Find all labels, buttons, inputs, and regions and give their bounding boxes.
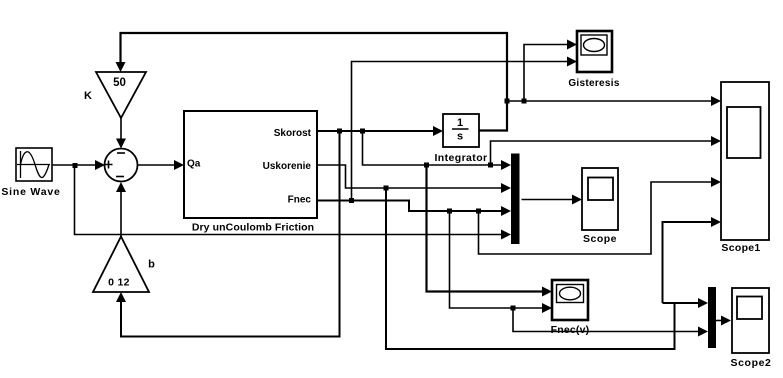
svg-text:50: 50 (113, 77, 126, 89)
svg-text:Gisteresis: Gisteresis (568, 78, 620, 89)
svg-text:Fnec(v): Fnec(v) (551, 324, 590, 336)
svg-text:Dry unCoulomb Friction: Dry unCoulomb Friction (192, 222, 314, 234)
svg-text:Scope2: Scope2 (731, 357, 772, 369)
svg-text:1: 1 (457, 117, 463, 129)
svg-text:Uskorenie: Uskorenie (263, 161, 312, 172)
svg-text:Skorost: Skorost (274, 128, 312, 139)
svg-text:K: K (84, 90, 92, 102)
svg-text:b: b (148, 259, 155, 271)
svg-text:Fnec: Fnec (288, 195, 312, 206)
svg-text:s: s (457, 131, 463, 143)
svg-text:Scope1: Scope1 (721, 242, 760, 254)
svg-text:0 12: 0 12 (108, 277, 130, 289)
svg-text:Qa: Qa (187, 159, 201, 170)
svg-text:Sine Wave: Sine Wave (1, 186, 60, 198)
svg-text:Integrator: Integrator (434, 152, 487, 164)
svg-text:Scope: Scope (583, 233, 617, 245)
